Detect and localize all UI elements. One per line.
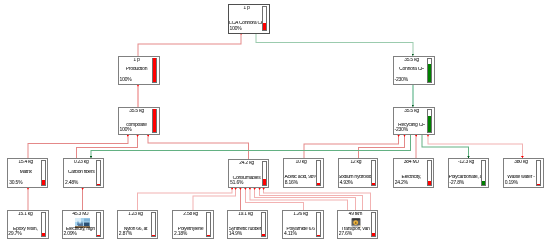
process Transport van [337, 210, 378, 239]
process Carbon fibers [63, 158, 104, 187]
process Polycarbonate [448, 158, 489, 187]
process Polyethylene [172, 210, 213, 239]
wire Consumables->Transport 4 [263, 188, 371, 211]
process Connora CF [393, 56, 435, 85]
wire Recycling->Waste water [427, 135, 524, 159]
wire composite->Carbon fibers [76, 135, 138, 159]
process Consumables [228, 159, 269, 188]
wire Recycling->Sodium hydroxide [359, 135, 406, 159]
wire Production->composite [137, 85, 139, 107]
wire composite->Consumables [147, 135, 248, 159]
wire Consumables->Polyamide [244, 188, 303, 211]
wire Consumables->Nylon 66 [137, 188, 233, 211]
wire Consumables->Transport 1 [249, 188, 348, 211]
process Production [118, 56, 160, 85]
process Acetic acid [283, 158, 324, 187]
wire Carbon fibers->Electricity high [82, 188, 84, 211]
wire LCA->Connora CF [256, 33, 414, 56]
process Nylon 66 [117, 210, 158, 239]
process Electricity high voltage [62, 210, 104, 239]
wire Matrix->Epoxy resin [27, 188, 29, 211]
wire Connora->Recycling [412, 85, 414, 107]
process LCA Connora CP [228, 4, 270, 34]
process Epoxy resin [7, 210, 49, 239]
wire composite->Matrix [28, 135, 129, 159]
process Sodium hydroxide [338, 158, 379, 187]
wire Consumables->Polyethylene [193, 188, 237, 211]
wire Recycling->Polycarbonate [422, 135, 470, 159]
wire Consumables->Transport 3 [258, 188, 362, 211]
process composite [118, 107, 160, 135]
process Synthetic rubber [227, 210, 268, 239]
process Matrix [7, 158, 48, 187]
wire Recycling->Acetic acid [304, 135, 400, 159]
wire Recycling->Electricity [415, 135, 417, 159]
wire Consumables->Synthetic rubber [239, 188, 241, 211]
process Waste water [503, 158, 544, 187]
wire Recycling->Carbon fibers (recycled) [90, 135, 411, 159]
process Electricity [393, 158, 434, 187]
process Polyamide 6.6 [282, 210, 323, 239]
wire LCA->Production [138, 33, 242, 56]
wire Consumables->Transport 2 [254, 188, 356, 211]
process Recycling CF [393, 107, 435, 135]
